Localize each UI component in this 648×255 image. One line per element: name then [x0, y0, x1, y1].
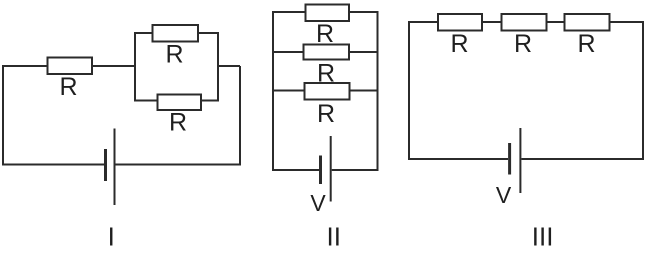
wire: bottom left horizontal (to battery short plate) [2, 164, 104, 166]
wire: outer left vertical [272, 11, 274, 171]
svg-text:III: III [532, 222, 554, 251]
wire: outer right vertical [642, 21, 644, 160]
wire: top left horizontal (left edge to resistor R) [3, 65, 48, 67]
wire: right vertical [239, 66, 241, 166]
svg-text:R: R [317, 100, 335, 128]
wire: top segment between second and third resistors [547, 21, 565, 23]
wire: bottom rung left segment [134, 100, 158, 102]
resistor R series (circuit I) [48, 58, 93, 75]
wire: top segment third resistor to right edge [610, 21, 645, 23]
wire: bottom right horizontal (battery to right vertical) [521, 158, 644, 160]
battery plate short (circuit I) [104, 149, 107, 181]
wire: top rung right segment [349, 11, 379, 13]
wire: bottom rung right segment [350, 90, 379, 92]
wire: outer left vertical [408, 21, 410, 160]
wire: series resistor to parallel block [92, 65, 135, 67]
svg-text:II: II [326, 222, 340, 251]
wire: top rung right segment [198, 32, 219, 34]
resistor R top (circuit II) [306, 5, 350, 22]
battery plate short (circuit III) [508, 143, 511, 175]
wire: parallel block left vertical [134, 32, 136, 102]
wire: middle rung right segment [349, 51, 379, 53]
resistor R first (circuit III) [438, 14, 482, 31]
wire: outer right vertical [377, 11, 379, 171]
wire: top segment left edge to first resistor [408, 21, 438, 23]
battery plate long (circuit III) [519, 128, 521, 193]
wire: left vertical [2, 65, 4, 165]
resistor R top of parallel pair (circuit I) [153, 25, 199, 42]
wire: middle rung left segment [272, 51, 304, 53]
svg-text:I: I [108, 222, 115, 251]
resistor R bottom of parallel pair (circuit I) [158, 95, 202, 111]
wire: bottom left horizontal (to battery short plate) [408, 158, 508, 160]
svg-text:R: R [450, 30, 468, 58]
svg-text:V: V [496, 182, 512, 208]
svg-text:R: R [169, 109, 187, 137]
wire: bottom rung right segment [201, 100, 219, 102]
svg-text:R: R [577, 30, 595, 58]
battery plate long (circuit II) [330, 136, 332, 202]
wire: top rung left segment [272, 11, 306, 13]
resistor R third (circuit III) [565, 14, 610, 31]
battery plate long (circuit I) [114, 129, 116, 206]
svg-text:R: R [59, 73, 77, 101]
wire: bottom rung left segment [272, 90, 305, 92]
wire: bottom right horizontal (battery to right vertical) [332, 169, 379, 171]
resistor R middle (circuit II) [304, 45, 350, 60]
resistor R second (circuit III) [502, 14, 547, 31]
wire: top rung left segment [134, 32, 153, 34]
svg-text:R: R [165, 41, 183, 69]
svg-text:R: R [514, 30, 532, 58]
battery plate short (circuit II) [319, 156, 322, 185]
wire: top segment between first and second resistors [482, 21, 502, 23]
svg-text:V: V [310, 190, 326, 216]
wire: connector parallel block to right vertical [218, 65, 240, 67]
wire: bottom left horizontal (to battery short plate) [272, 169, 319, 171]
wire: bottom right horizontal (battery to right vertical) [116, 164, 242, 166]
wire: parallel block right vertical [217, 32, 219, 102]
resistor R bottom (circuit II) [305, 83, 350, 100]
